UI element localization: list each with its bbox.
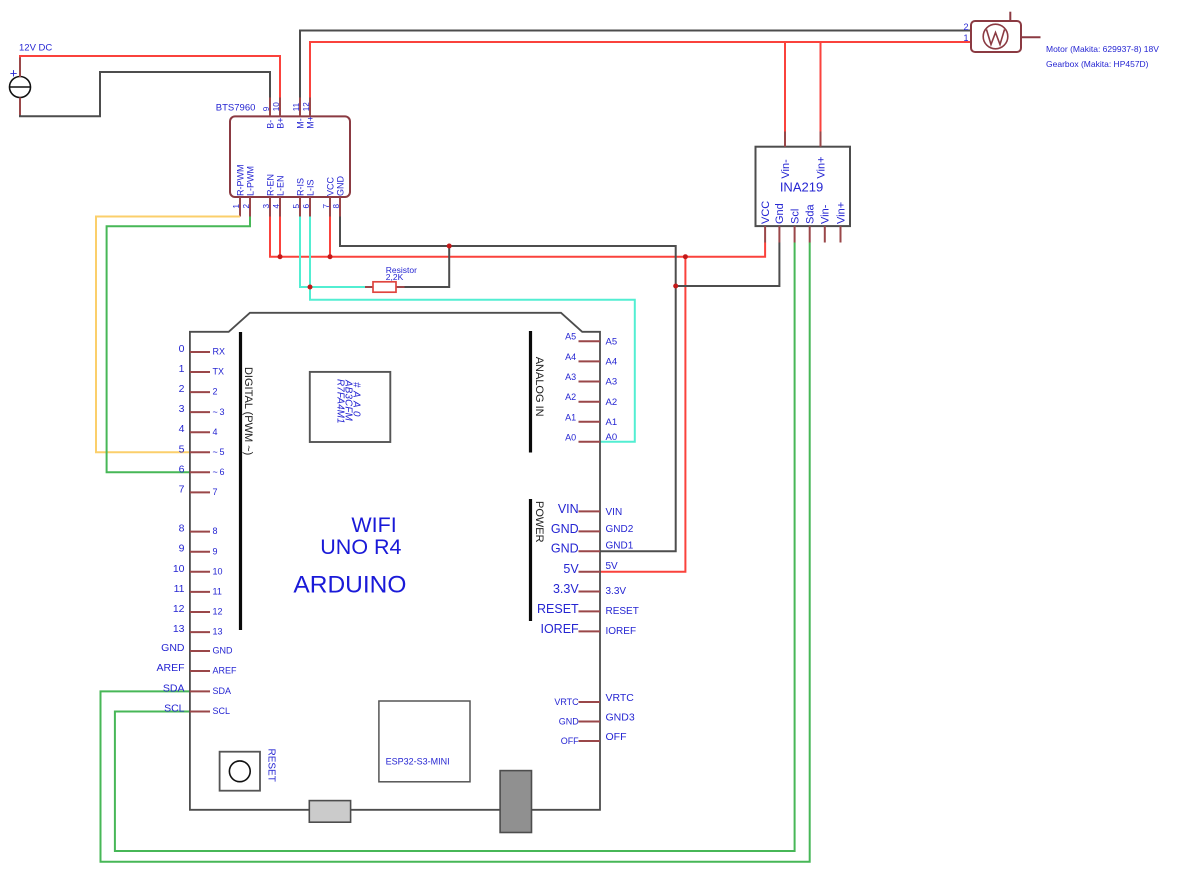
svg-text:5: 5 xyxy=(292,204,301,209)
svg-text:4: 4 xyxy=(213,427,218,437)
svg-text:8: 8 xyxy=(332,204,341,209)
svg-text:GND1: GND1 xyxy=(606,541,634,552)
svg-text:SDA: SDA xyxy=(213,686,232,696)
svg-text:5V: 5V xyxy=(563,562,579,576)
svg-text:Scl: Scl xyxy=(789,209,801,224)
svg-text:A3: A3 xyxy=(565,372,576,382)
svg-text:7: 7 xyxy=(179,483,185,495)
svg-text:7: 7 xyxy=(213,487,218,497)
svg-text:5: 5 xyxy=(179,443,185,455)
svg-text:VRTC: VRTC xyxy=(606,692,635,704)
svg-text:9: 9 xyxy=(213,546,218,556)
svg-text:GND: GND xyxy=(551,542,579,556)
svg-text:9: 9 xyxy=(179,543,185,555)
svg-text:A5: A5 xyxy=(565,332,576,342)
svg-text:GND2: GND2 xyxy=(606,524,634,535)
svg-text:A1: A1 xyxy=(565,412,576,422)
svg-text:B+: B+ xyxy=(275,118,285,129)
svg-text:AREF: AREF xyxy=(213,666,238,676)
svg-text:Motor (Makita: 629937-8) 18V: Motor (Makita: 629937-8) 18V xyxy=(1046,44,1159,54)
svg-text:3.3V: 3.3V xyxy=(553,582,579,596)
svg-text:A3: A3 xyxy=(606,377,618,388)
svg-text:13: 13 xyxy=(173,623,185,635)
svg-text:GND: GND xyxy=(559,716,580,726)
svg-text:2: 2 xyxy=(242,204,251,209)
svg-text:10: 10 xyxy=(272,102,281,112)
svg-text:VCC: VCC xyxy=(760,201,772,224)
svg-text:3.3V: 3.3V xyxy=(606,586,627,597)
svg-text:WIFI: WIFI xyxy=(351,513,396,537)
svg-text:ARDUINO: ARDUINO xyxy=(293,571,406,598)
svg-text:BTS7960: BTS7960 xyxy=(216,103,256,114)
svg-text:A4: A4 xyxy=(565,352,576,362)
svg-text:11: 11 xyxy=(213,587,222,597)
svg-text:R-IS: R-IS xyxy=(295,178,305,196)
svg-text:GND: GND xyxy=(161,642,185,654)
svg-text:AREF: AREF xyxy=(156,662,184,674)
svg-text:VIN: VIN xyxy=(606,507,623,518)
svg-text:2: 2 xyxy=(963,22,968,32)
svg-text:ANALOG IN: ANALOG IN xyxy=(533,357,545,417)
svg-text:R-PWM: R-PWM xyxy=(235,165,245,196)
svg-text:IOREF: IOREF xyxy=(606,626,637,637)
svg-text:~ 5: ~ 5 xyxy=(213,447,225,457)
svg-text:2: 2 xyxy=(179,383,185,395)
svg-text:11: 11 xyxy=(174,583,185,595)
svg-text:3: 3 xyxy=(262,204,271,209)
svg-text:12: 12 xyxy=(173,603,185,615)
svg-text:A2: A2 xyxy=(565,392,576,402)
svg-text:A4: A4 xyxy=(606,357,618,368)
svg-text:12: 12 xyxy=(213,607,223,617)
svg-text:SDA: SDA xyxy=(163,682,185,694)
svg-text:L-EN: L-EN xyxy=(275,175,285,196)
svg-text:RESET: RESET xyxy=(606,606,639,617)
svg-text:~ 3: ~ 3 xyxy=(213,407,225,417)
svg-text:1: 1 xyxy=(232,204,241,209)
svg-text:9: 9 xyxy=(262,106,271,111)
svg-text:GND: GND xyxy=(335,176,345,197)
svg-text:R-EN: R-EN xyxy=(265,174,275,196)
svg-text:1: 1 xyxy=(963,33,968,43)
svg-text:2,2K: 2,2K xyxy=(386,272,404,282)
svg-text:RX: RX xyxy=(213,347,226,357)
svg-text:1: 1 xyxy=(179,363,185,375)
svg-text:Gnd: Gnd xyxy=(774,203,786,224)
svg-text:GND: GND xyxy=(213,646,234,656)
svg-text:TX: TX xyxy=(213,367,225,377)
svg-text:4: 4 xyxy=(272,204,281,209)
svg-text:~ 6: ~ 6 xyxy=(213,467,225,477)
svg-text:7: 7 xyxy=(322,204,331,209)
svg-text:5V: 5V xyxy=(606,561,619,572)
svg-text:3: 3 xyxy=(179,403,185,415)
svg-text:SCL: SCL xyxy=(213,706,231,716)
svg-text:6: 6 xyxy=(302,204,311,209)
svg-text:13: 13 xyxy=(213,627,223,637)
svg-text:A0: A0 xyxy=(565,432,576,442)
svg-text:GND: GND xyxy=(551,522,579,536)
svg-text:L-PWM: L-PWM xyxy=(245,166,255,196)
svg-text:2: 2 xyxy=(213,387,218,397)
svg-text:L-IS: L-IS xyxy=(305,179,315,196)
svg-text:A5: A5 xyxy=(606,336,618,347)
svg-text:0: 0 xyxy=(179,343,185,355)
svg-text:8: 8 xyxy=(179,523,185,535)
svg-text:IOREF: IOREF xyxy=(540,622,579,636)
svg-text:+: + xyxy=(10,66,18,81)
svg-text:Gearbox (Makita: HP457D): Gearbox (Makita: HP457D) xyxy=(1046,59,1149,69)
svg-text:INA219: INA219 xyxy=(780,180,823,195)
svg-text:12V DC: 12V DC xyxy=(19,43,52,54)
svg-text:Vin-: Vin- xyxy=(780,159,792,179)
svg-text:4: 4 xyxy=(179,423,185,435)
svg-text:6: 6 xyxy=(179,463,185,475)
svg-text:R7FA4M1: R7FA4M1 xyxy=(335,379,346,424)
svg-text:DIGITAL (PWM ~): DIGITAL (PWM ~) xyxy=(242,367,254,455)
svg-text:Sda: Sda xyxy=(805,204,817,224)
svg-text:10: 10 xyxy=(173,563,185,575)
svg-text:A0: A0 xyxy=(606,432,618,443)
svg-text:OFF: OFF xyxy=(561,736,579,746)
svg-text:Vin+: Vin+ xyxy=(835,202,847,224)
svg-text:M-: M- xyxy=(295,118,305,129)
svg-text:B-: B- xyxy=(265,120,275,129)
svg-text:A1: A1 xyxy=(606,417,618,428)
svg-text:RESET: RESET xyxy=(537,602,579,616)
svg-text:Vin-: Vin- xyxy=(820,204,832,224)
svg-text:VIN: VIN xyxy=(558,502,579,516)
svg-text:UNO R4: UNO R4 xyxy=(320,535,401,559)
svg-text:VRTC: VRTC xyxy=(554,697,579,707)
svg-text:10: 10 xyxy=(213,566,223,576)
svg-text:GND3: GND3 xyxy=(606,712,635,724)
svg-text:Vin+: Vin+ xyxy=(815,156,827,178)
svg-text:VCC: VCC xyxy=(325,176,335,196)
svg-text:RESET: RESET xyxy=(266,749,277,782)
svg-text:11: 11 xyxy=(292,102,301,111)
svg-text:OFF: OFF xyxy=(606,731,627,743)
svg-text:ESP32-S3-MINI: ESP32-S3-MINI xyxy=(386,757,450,767)
svg-text:SCL: SCL xyxy=(164,703,185,715)
svg-text:12: 12 xyxy=(302,102,311,112)
svg-text:M+: M+ xyxy=(305,116,315,129)
svg-text:8: 8 xyxy=(213,526,218,536)
svg-text:A2: A2 xyxy=(606,397,618,408)
svg-text:POWER: POWER xyxy=(533,501,545,543)
